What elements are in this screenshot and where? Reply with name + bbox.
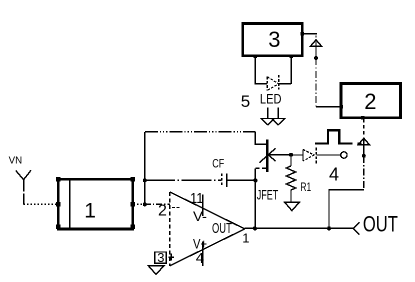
box 2 (339, 83, 400, 119)
antenna VN (16, 170, 31, 204)
op-amp U1 (170, 192, 245, 266)
diode 4 (291, 148, 347, 165)
junction on output wire (327, 226, 331, 230)
junction at CF line (143, 178, 147, 182)
wire box1 to op-amp input (dotted then dash-dot) (134, 203, 145, 205)
capacitor CF (145, 173, 256, 187)
resistor R1 (286, 155, 295, 203)
wire output (245, 227, 354, 229)
pin 11 lead (202, 195, 204, 216)
ground below R1 (285, 202, 300, 210)
junction JFET gate / R1 / diode (289, 153, 293, 157)
junction CF / JFET source (253, 178, 257, 182)
svg-text:JFET: JFET (257, 186, 279, 202)
connector OUT (353, 222, 359, 235)
junction below arrow connector (314, 56, 318, 60)
pin 3 boxed label (155, 250, 167, 265)
svg-text:OUT: OUT (212, 220, 232, 237)
wire feedback vertical (144, 132, 146, 205)
svg-text:CF: CF (212, 159, 224, 171)
wire to box 2 (dash-dot) (315, 58, 317, 107)
ground at op-amp pin 3 (148, 266, 164, 275)
junction below box 2 arrow (362, 154, 366, 158)
wire JFET source to output node (254, 180, 256, 228)
arrow connector below box 2 (358, 119, 369, 156)
junction op-amp output / JFET source (253, 226, 257, 230)
junction at op-amp input (143, 202, 147, 206)
svg-text:3: 3 (157, 250, 164, 265)
svg-text:2: 2 (158, 203, 167, 220)
wire box2 arrow down to output (dash-dot then solid) (363, 156, 365, 190)
svg-text:LED: LED (260, 91, 282, 107)
box 3 (243, 24, 304, 59)
svg-text:11: 11 (190, 190, 204, 207)
svg-text:2: 2 (364, 89, 376, 114)
svg-text:1: 1 (242, 230, 249, 245)
LED (below box 3) (255, 57, 291, 90)
svg-text:OUT: OUT (363, 212, 398, 237)
wire box3 right pin (303, 33, 317, 35)
svg-text:4: 4 (196, 250, 204, 267)
svg-text:VN: VN (9, 155, 23, 167)
svg-text:V-: V- (193, 208, 207, 224)
arrow connector right of box 3 (310, 35, 321, 58)
svg-text:1: 1 (84, 200, 96, 223)
wire feedback top (dash-dot) (145, 131, 256, 133)
pin 4 lead (202, 242, 204, 266)
wire antenna to box1 (dotted) (24, 203, 58, 205)
op-amp minus sign (172, 207, 180, 209)
svg-text:3: 3 (268, 27, 280, 52)
box 1 (56, 177, 135, 229)
svg-text:V+: V+ (193, 235, 207, 251)
svg-text:4: 4 (329, 164, 339, 184)
LED light arrows (261, 107, 284, 125)
svg-text:5: 5 (241, 92, 250, 111)
op-amp plus sign (168, 254, 174, 261)
transistor JFET (255, 132, 291, 181)
pulse waveform symbol (315, 130, 353, 143)
svg-text:R1: R1 (300, 180, 311, 194)
